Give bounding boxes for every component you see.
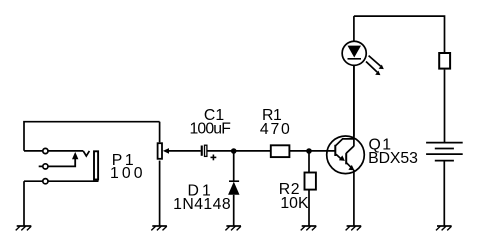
wire node B to R2 <box>308 151 310 172</box>
wire node B to Q1 base <box>309 150 335 152</box>
transistor Q1 darlington <box>327 65 365 226</box>
jack body rectangle <box>94 151 98 179</box>
jack switch V notch <box>83 151 89 156</box>
svg-text:470: 470 <box>260 121 290 138</box>
svg-text:1N4148: 1N4148 <box>173 196 231 213</box>
R2 body <box>305 173 316 190</box>
D1 triangle <box>228 182 239 195</box>
capacitor C1 <box>201 145 234 160</box>
wire jack top contact to top rail <box>24 122 160 151</box>
ground (P1) <box>151 226 167 230</box>
LED triangle <box>348 46 362 58</box>
wire R1 to node B <box>289 150 309 152</box>
svg-text:BDX53: BDX53 <box>368 150 418 167</box>
wire C1 to node A <box>207 150 234 152</box>
ground (Q1 emitter) <box>346 226 362 230</box>
diode D1 <box>228 151 239 226</box>
Q1 base bar 2 <box>345 153 347 164</box>
Q1 base bar 1 <box>334 145 336 156</box>
battery plate long 2 <box>426 153 463 155</box>
wire LED to Q1 collector <box>353 65 355 136</box>
LED light arrow 1 <box>369 56 381 67</box>
pot wiper arrow <box>163 148 169 154</box>
wire pot bottom to ground <box>159 161 161 226</box>
wire battery to ground <box>443 161 445 226</box>
wire node A to D1 <box>233 151 235 181</box>
resistor R2 <box>305 151 316 226</box>
battery plate long 1 <box>426 142 463 144</box>
C1 negative plate <box>201 146 203 156</box>
Q1 circle <box>327 136 365 174</box>
Q1 emitter 1 with arrow <box>336 154 342 159</box>
jack pin circle 1 <box>43 148 48 153</box>
jack ring contact stub <box>39 159 75 167</box>
svg-text:10K: 10K <box>280 195 309 212</box>
LED cathode bar <box>348 58 362 60</box>
C1 plus sign <box>211 156 217 158</box>
wire R3 to battery <box>444 70 446 143</box>
Q1 collector stem <box>353 65 355 146</box>
LED D2 <box>342 16 384 75</box>
LED circle <box>342 41 366 65</box>
battery plate short 2 <box>435 160 454 162</box>
Q1 collector 1 path <box>336 139 354 146</box>
jack sleeve line <box>24 180 99 182</box>
Q1 collector 2 diagonal <box>346 146 354 153</box>
connector J1 jack <box>24 122 160 226</box>
wire R2 to ground <box>308 191 310 226</box>
jack pin circle 3 <box>43 179 48 184</box>
jack switch arrow <box>72 152 78 159</box>
wire top rail to LED <box>353 16 355 41</box>
C1 positive plate <box>205 145 207 156</box>
svg-text:100: 100 <box>110 165 143 182</box>
Q1 emitter stem to ground <box>353 170 355 226</box>
wire pot top <box>159 122 161 143</box>
node B junction dot <box>306 148 312 154</box>
battery B1 <box>426 143 463 226</box>
potentiometer P1 <box>158 122 201 226</box>
resistor R1 <box>271 145 290 157</box>
resistor R3 (unlabeled) <box>439 53 450 69</box>
wire node A to R1 <box>234 150 270 152</box>
Q1 emitter 2 with arrow <box>347 163 352 168</box>
node A junction dot <box>231 148 237 154</box>
wire wiper to C1 <box>169 150 201 152</box>
wire D1 to ground <box>233 195 235 226</box>
jack tip contact line <box>24 150 83 152</box>
ground (D1) <box>225 226 241 230</box>
D1 cathode bar <box>229 180 239 182</box>
ground (R2) <box>301 226 317 230</box>
ground (jack) <box>16 226 32 230</box>
LED light arrow 2 <box>366 62 377 73</box>
svg-text:100uF: 100uF <box>190 121 232 138</box>
battery plate short 1 <box>435 148 454 150</box>
pot body <box>158 143 162 159</box>
ground (battery) <box>436 226 452 230</box>
wire jack sleeve to ground <box>23 181 25 226</box>
wire top rail <box>354 16 445 52</box>
jack pin circle 2 <box>43 164 48 169</box>
